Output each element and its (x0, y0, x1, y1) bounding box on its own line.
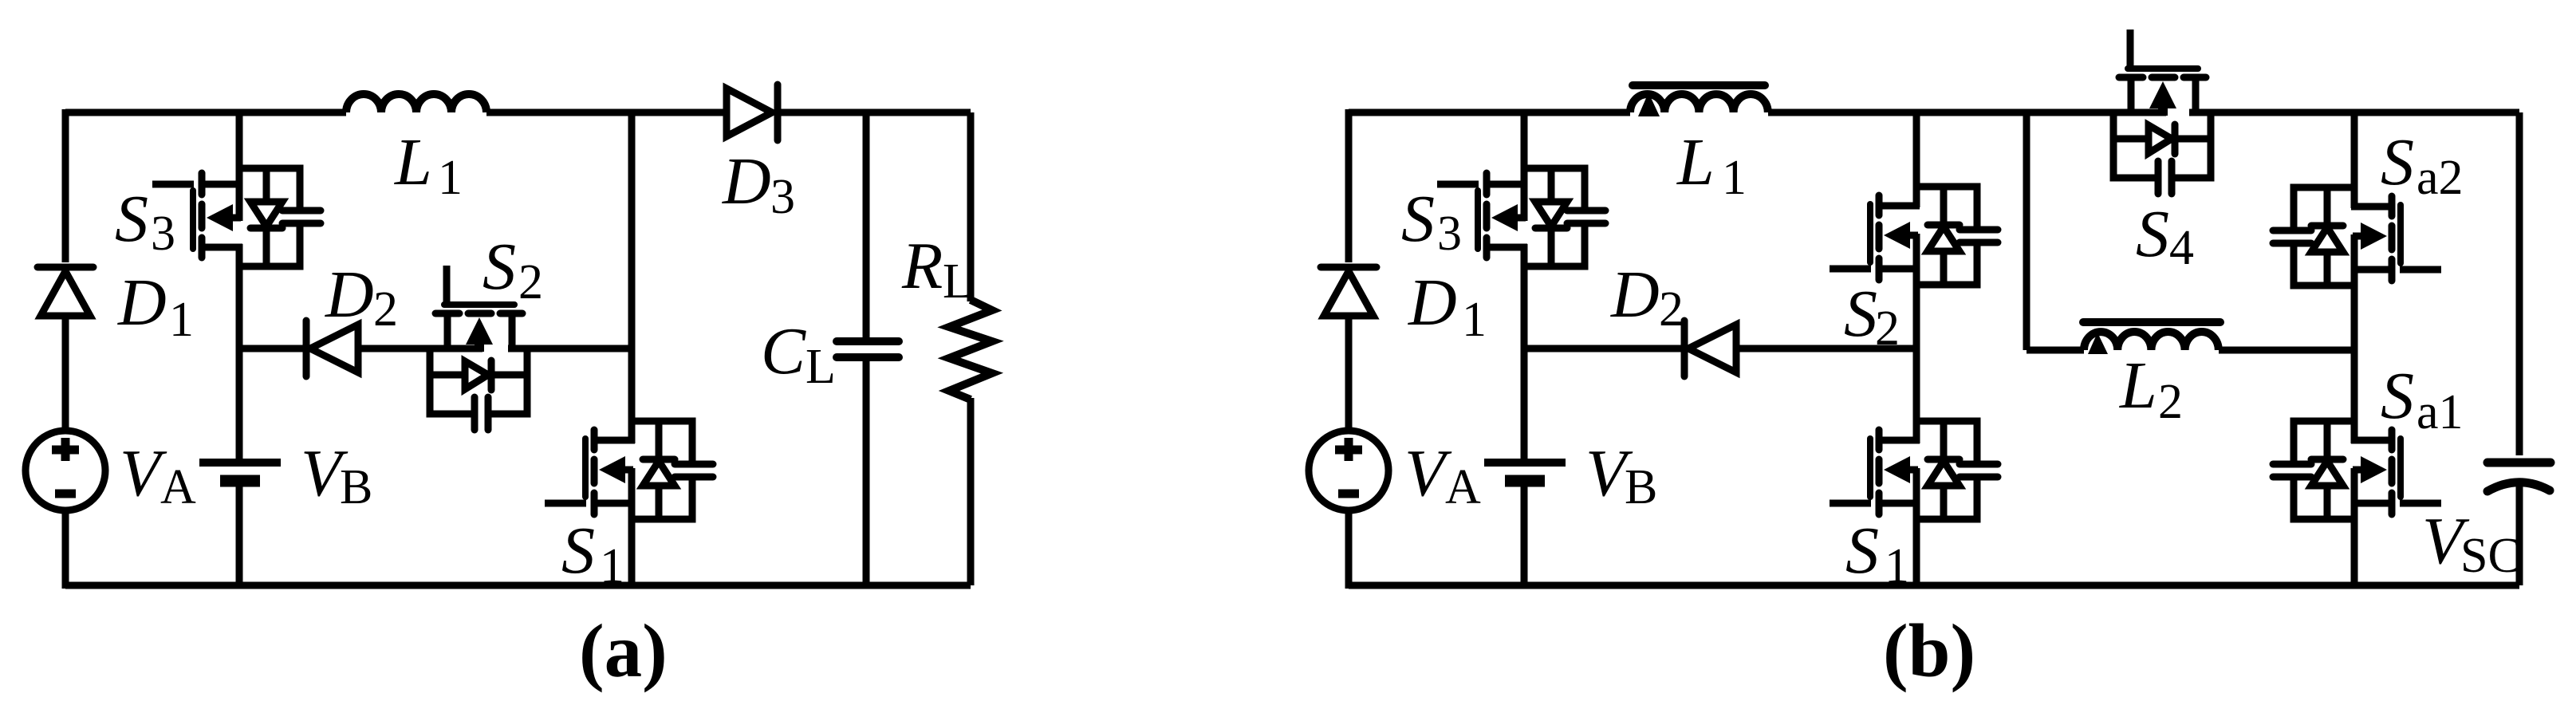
svg-text:3: 3 (1437, 207, 1462, 261)
svg-text:L: L (394, 125, 432, 199)
svg-text:S: S (2136, 197, 2169, 271)
svg-text:S: S (115, 182, 148, 256)
svg-text:D: D (722, 144, 771, 219)
svg-text:S: S (2381, 359, 2414, 433)
svg-text:1: 1 (1722, 151, 1747, 205)
svg-text:S: S (1401, 182, 1435, 256)
svg-text:1: 1 (1462, 293, 1487, 347)
svg-text:S: S (1844, 277, 1877, 351)
svg-text:(b): (b) (1883, 609, 1975, 693)
svg-text:1: 1 (600, 539, 624, 593)
svg-text:a1: a1 (2416, 385, 2464, 439)
svg-text:2: 2 (518, 255, 543, 309)
svg-text:2: 2 (2158, 375, 2183, 429)
svg-text:R: R (901, 229, 943, 303)
svg-text:S: S (561, 514, 595, 588)
svg-text:D: D (1408, 266, 1457, 340)
svg-text:C: C (761, 314, 806, 388)
svg-text:S: S (2381, 125, 2414, 199)
svg-text:D: D (117, 266, 167, 340)
svg-text:2: 2 (373, 282, 398, 337)
svg-text:1: 1 (438, 151, 463, 205)
svg-text:1: 1 (1885, 539, 1909, 593)
svg-text:(a): (a) (579, 609, 668, 693)
svg-text:2: 2 (1875, 301, 1900, 356)
svg-text:SC: SC (2460, 529, 2521, 583)
svg-text:B: B (340, 460, 372, 514)
svg-text:L: L (1676, 125, 1715, 199)
svg-text:D: D (325, 258, 374, 332)
svg-text:3: 3 (770, 170, 795, 224)
svg-text:D: D (1610, 258, 1660, 332)
svg-text:L: L (943, 254, 973, 309)
svg-text:A: A (160, 460, 196, 514)
svg-text:B: B (1625, 460, 1657, 514)
svg-text:1: 1 (169, 293, 194, 347)
svg-text:S: S (483, 230, 516, 304)
svg-text:a2: a2 (2416, 151, 2464, 205)
svg-text:3: 3 (151, 207, 175, 261)
svg-text:L: L (805, 340, 836, 394)
svg-text:2: 2 (1659, 282, 1684, 337)
svg-text:S: S (1845, 514, 1879, 588)
svg-text:A: A (1445, 460, 1481, 514)
svg-text:L: L (2119, 349, 2157, 423)
svg-text:4: 4 (2169, 221, 2194, 275)
